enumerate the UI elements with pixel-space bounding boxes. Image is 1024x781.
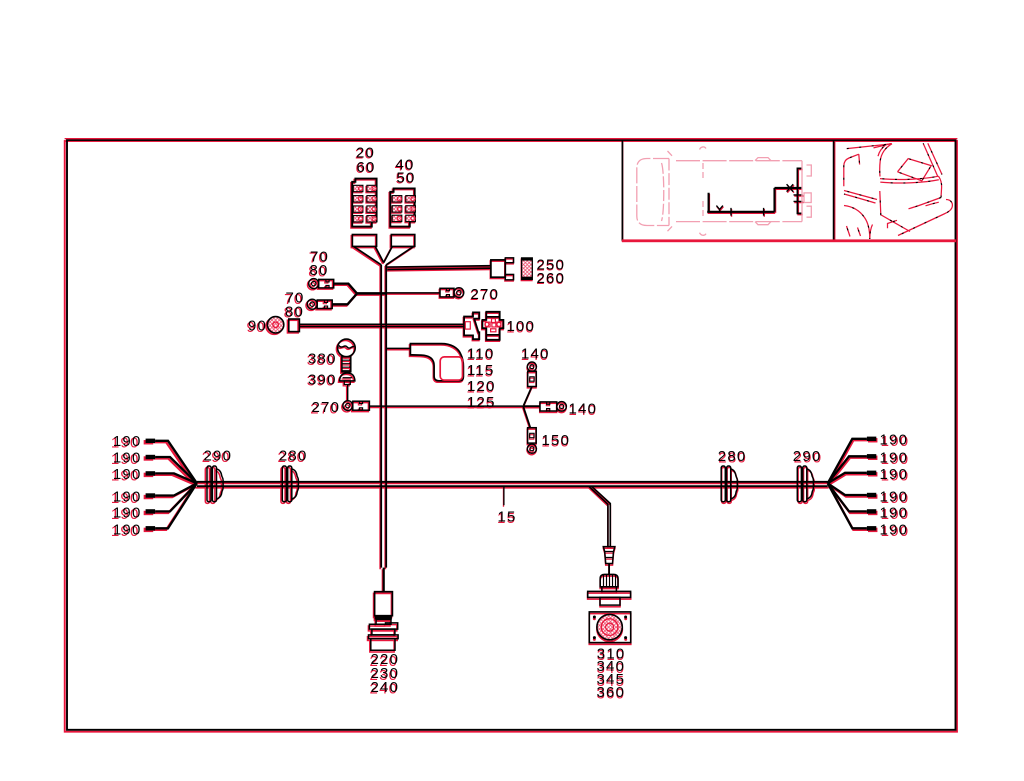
van top view inset [637,147,812,235]
truck rear view inset [844,143,953,239]
socket plate red rings [601,619,618,636]
grommet 90 inner ring [273,322,279,328]
frame top red fringe [65,138,958,140]
truck rear view black flecks [844,143,953,239]
pin circles connector 20/60 [358,186,415,221]
connector 100 red inserts [465,319,501,332]
inset bottom red bar [622,239,956,242]
red misregistration pass [65,141,957,732]
boot inner red connector [440,357,462,380]
black pass [67,140,956,730]
